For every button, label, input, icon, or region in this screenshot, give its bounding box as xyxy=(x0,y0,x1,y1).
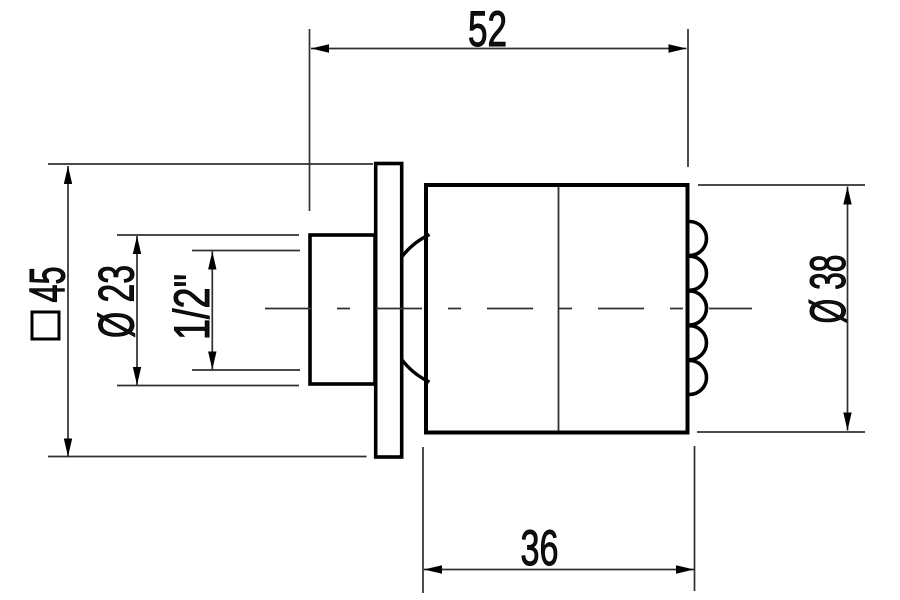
spray face scallop 1 xyxy=(690,222,707,256)
dimension dia-23: arrowheads xyxy=(133,236,141,385)
dimension square-45: arrowheads xyxy=(64,166,72,457)
dimension 36: arrowheads xyxy=(424,565,694,573)
svg-text:Ø 23: Ø 23 xyxy=(89,265,145,338)
dimension 36: line xyxy=(423,446,695,593)
spray face scallop 3 xyxy=(690,291,707,325)
dimension square-45: line xyxy=(48,164,373,457)
dimension dia-38: line xyxy=(697,185,865,432)
dimension dia-38: top extension line xyxy=(698,184,865,186)
svg-text:45: 45 xyxy=(20,267,76,303)
dimension dia-23: top extension line xyxy=(117,234,299,236)
dimension dia-38: bottom extension line xyxy=(697,431,865,433)
wall flange / escutcheon plate xyxy=(376,164,402,458)
dimension 52: left extension line xyxy=(309,29,311,211)
dimension half-inch: line xyxy=(192,251,300,371)
dimension half-inch: top extension line xyxy=(192,250,300,252)
dimension 52: arrowheads xyxy=(311,44,687,52)
dimension dia-23: bottom extension line xyxy=(117,385,299,387)
dimension 36: right extension line xyxy=(694,446,696,591)
dimension dia-38: arrowheads xyxy=(843,187,851,431)
spray face scallop 4 xyxy=(690,326,707,360)
spray face scallop 2 xyxy=(690,256,707,290)
spray face scallop 5 xyxy=(690,361,707,395)
svg-text:52: 52 xyxy=(468,1,507,57)
horizontal centerline xyxy=(265,308,752,310)
dimension square-45: bottom extension line xyxy=(48,456,367,458)
dimension half-inch: bottom extension line xyxy=(192,369,300,371)
dimension square-45: top extension line xyxy=(48,163,373,165)
dimension 52: line xyxy=(310,29,689,211)
ball joint silhouette top arc xyxy=(402,235,430,258)
pipe connector body (1/2" thread stub) xyxy=(310,235,375,384)
svg-text:Ø 38: Ø 38 xyxy=(800,255,856,324)
svg-text:1/2": 1/2" xyxy=(164,274,220,340)
body mid seam line xyxy=(558,187,560,431)
dimension square-45: square symbol xyxy=(32,312,59,339)
dimension 36: left extension line xyxy=(422,447,424,593)
svg-text:36: 36 xyxy=(521,520,559,576)
dimension half-inch: arrowheads xyxy=(208,252,216,370)
dimension dia-23: line xyxy=(117,235,299,386)
main cylindrical body xyxy=(426,185,688,433)
dimension 52: right extension line xyxy=(687,29,689,167)
ball joint silhouette bottom arc xyxy=(402,360,430,383)
